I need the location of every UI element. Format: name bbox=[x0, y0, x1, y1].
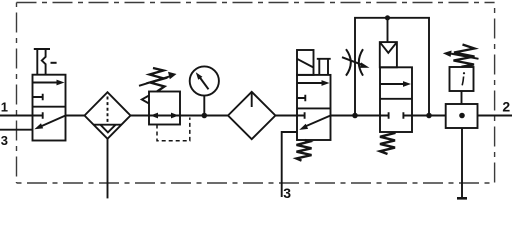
valve V2 solenoid bbox=[297, 50, 314, 75]
port 2 line bbox=[478, 115, 512, 117]
svg-text:1: 1 bbox=[1, 100, 8, 115]
regulator R1 through-flow line with arrowheads bbox=[149, 113, 180, 119]
junction dot at gauge tap bbox=[202, 113, 208, 119]
valve V3 port stub (right) bbox=[403, 112, 412, 118]
valve V2 manual override bbox=[317, 59, 331, 75]
port 3 line bbox=[0, 129, 33, 131]
regulator R2 adjustment arrow bbox=[443, 51, 479, 59]
valve V3 pilot box with chevron bbox=[380, 42, 397, 67]
valve V3 body (pilot operated 2/2) bbox=[380, 67, 412, 132]
svg-text:2: 2 bbox=[502, 99, 510, 115]
valve V2 port stub (top) bbox=[297, 95, 305, 101]
regulator R2 adjustment spring bbox=[454, 45, 475, 67]
valve V3 flow arrow (top position) bbox=[380, 81, 411, 87]
valve V1 body (3/2 manual on-off valve) bbox=[33, 75, 66, 141]
regulator R1 adjustment spring bbox=[150, 68, 165, 92]
valve V2 exhaust diagonal with arrowhead bbox=[299, 116, 330, 130]
valve V2 return spring bbox=[297, 140, 312, 161]
regulator R1 pilot feedback dashed line bbox=[157, 118, 190, 141]
regulator R1 adjustment arrow bbox=[139, 72, 177, 86]
regulator R1 relief triangle bbox=[142, 96, 149, 104]
port 1 line bbox=[0, 115, 33, 117]
valve V1 manual actuator with detent bbox=[34, 49, 57, 75]
valve V1 flow arrow (top position) bbox=[33, 80, 65, 86]
assembly boundary (dash-dot frame) bbox=[17, 3, 495, 184]
regulator R2 lower box on main line bbox=[446, 104, 478, 128]
valve V3 port stub (left) bbox=[380, 112, 389, 118]
gauge connection stem bbox=[203, 96, 205, 116]
regulator R2 stub between boxes bbox=[461, 91, 463, 104]
valve V2 port stub (bottom) bbox=[297, 112, 305, 118]
junction dot at pilot branch bbox=[385, 15, 390, 20]
bypass pilot line up and over bbox=[355, 18, 429, 116]
valve V3 return spring bbox=[380, 133, 396, 154]
valve V2 exhaust line to port 3 bbox=[282, 132, 297, 197]
svg-text:3: 3 bbox=[283, 185, 291, 200]
junction dot in R2 lower box bbox=[459, 113, 465, 119]
junction dot at bypass tap bbox=[352, 113, 358, 119]
wire R1 to filter F2 bbox=[180, 115, 228, 117]
R2 branch line down bbox=[461, 128, 463, 198]
wire V1 to filter F1 bbox=[66, 115, 85, 117]
regulator R1 body bbox=[149, 92, 180, 125]
junction dot at bypass return bbox=[426, 113, 432, 119]
valve V2 body (3/2 solenoid valve) bbox=[297, 75, 331, 140]
valve V1 port stub (bottom) bbox=[33, 112, 43, 118]
valve V1 port stub (top) bbox=[33, 94, 43, 100]
filter F1 with water separator bbox=[85, 92, 131, 139]
pilot drop line to V3 bbox=[387, 18, 389, 42]
wire V2 to V3 bbox=[331, 115, 381, 117]
wire F1 to regulator R1 bbox=[131, 115, 150, 117]
pressure gauge G1 bbox=[190, 66, 219, 95]
wire V3 to regulator R2 bbox=[412, 115, 446, 117]
valve V1 exhaust diagonal with arrowhead bbox=[34, 116, 65, 130]
wire F2 to valve V2 bbox=[275, 115, 297, 117]
throttle FC1 (adjustable restrictor) bbox=[342, 49, 370, 75]
regulator R2 nozzle glyph bbox=[462, 72, 465, 85]
filter F2 (fine filter) bbox=[228, 92, 275, 139]
drain line of F1 bbox=[107, 139, 109, 199]
svg-text:3: 3 bbox=[1, 133, 8, 148]
regulator R2 upper box bbox=[450, 67, 474, 91]
valve V2 flow arrow (top position) bbox=[297, 80, 330, 86]
R2 branch end bar bbox=[457, 197, 467, 200]
